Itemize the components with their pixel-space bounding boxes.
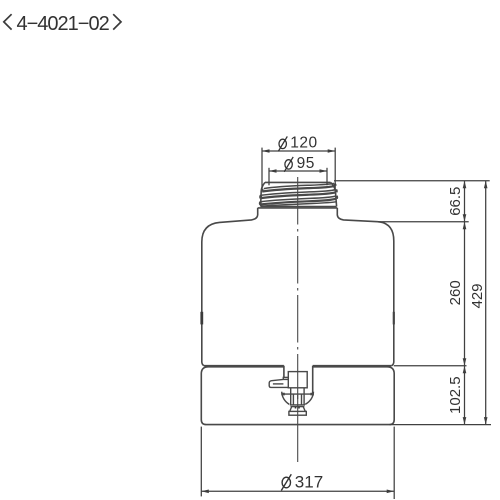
- thread ribbon 3 bottom: [261, 199, 337, 205]
- title left angle bracket: [4, 14, 12, 29]
- spigot tip line: [291, 406, 305, 408]
- dim phi120 extension right: [334, 148, 336, 190]
- thread ribbon 2 top: [261, 190, 336, 196]
- base outline: [201, 367, 394, 425]
- body bottom step line right: [313, 365, 392, 367]
- left wall gauge mark: [200, 312, 203, 325]
- thread ribbon 1 top: [264, 183, 334, 188]
- centerline dash-dot: [297, 177, 299, 399]
- dim 102.5 line: [464, 366, 466, 425]
- spigot handle inner line: [273, 383, 284, 385]
- spigot bore marks: [296, 407, 300, 409]
- spigot stem nut: [283, 377, 288, 380]
- dim phi95 extension left: [268, 168, 270, 186]
- right wall gauge mark: [393, 312, 395, 325]
- spigot flange end ticks: [281, 393, 314, 396]
- thread left bulge 3: [259, 202, 262, 205]
- thread ribbon 3 top: [261, 196, 337, 202]
- dim phi120 extension left: [261, 148, 263, 190]
- dim phi317 line: [201, 490, 394, 492]
- spigot nozzle separator: [290, 404, 305, 406]
- recess left vertical: [283, 366, 285, 381]
- svg-text:4−4021−02: 4−4021−02: [17, 13, 110, 35]
- extension line shoulder right: [378, 221, 469, 223]
- body bottom step line left: [204, 365, 284, 367]
- thread bottom line: [261, 206, 337, 208]
- svg-text:102.5: 102.5: [447, 376, 464, 414]
- spigot valve body: [288, 372, 307, 388]
- neck left edge: [261, 182, 265, 206]
- thread right bulge 2: [335, 190, 338, 192]
- extension line top right: [334, 180, 490, 182]
- dim 260 line: [464, 222, 466, 366]
- thread right bulge 1: [334, 184, 335, 186]
- svg-text:429: 429: [469, 283, 486, 308]
- spigot outlet stem: [291, 388, 304, 405]
- recess right vertical: [312, 366, 314, 394]
- spigot: [269, 372, 314, 416]
- dim 66.5 line: [464, 181, 466, 222]
- extension line step right: [394, 365, 467, 367]
- spigot handle lever: [269, 379, 288, 387]
- title right angle bracket: [113, 14, 121, 29]
- svg-text:66.5: 66.5: [447, 187, 464, 216]
- neck right edge: [331, 182, 337, 206]
- right collar edge and shoulder: [337, 208, 394, 366]
- collar bottom line: [258, 207, 338, 209]
- phi symbol for 317: [281, 474, 291, 490]
- extension line bottom right: [390, 424, 491, 426]
- spigot foot: [289, 411, 306, 415]
- dim 429 line: [485, 181, 487, 425]
- spigot bell right arc: [305, 392, 313, 405]
- svg-text:260: 260: [447, 280, 464, 305]
- dim phi95 extension right: [326, 168, 328, 186]
- svg-text:95: 95: [297, 155, 315, 172]
- thread crest 4 partial: [261, 202, 337, 207]
- dim phi317 extension left: [200, 427, 202, 497]
- spigot tip trapezoid: [290, 407, 306, 412]
- spigot inner tube: [293, 394, 301, 405]
- phi symbol for 95: [284, 157, 293, 172]
- dim phi120 line: [262, 150, 335, 152]
- dim phi95 line: [269, 170, 327, 172]
- svg-text:120: 120: [290, 135, 317, 152]
- centerline lower solid: [297, 395, 299, 462]
- spigot bell left arc: [282, 392, 290, 405]
- spigot bell flange line: [281, 393, 314, 395]
- thread left bulge 1: [261, 189, 265, 192]
- thread right bulge 3: [335, 196, 338, 198]
- phi symbol for 120: [278, 136, 287, 151]
- svg-text:317: 317: [295, 473, 323, 492]
- neck rim: [265, 181, 331, 183]
- left collar edge and shoulder: [202, 208, 258, 366]
- thread ribbon 2 bottom: [261, 192, 336, 198]
- thread ribbon 1 bottom: [262, 186, 335, 192]
- dim phi317 extension right: [393, 427, 395, 499]
- thread left bulge 2: [259, 196, 262, 199]
